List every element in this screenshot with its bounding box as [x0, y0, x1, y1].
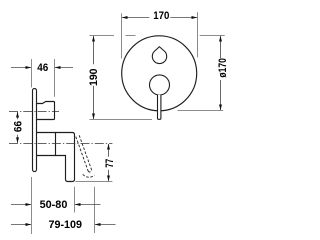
- svg-text:ø170: ø170: [217, 58, 229, 77]
- dim 46 arrows: [11, 67, 31, 69]
- dim 190 line: [93, 36, 95, 64]
- svg-text:79-109: 79-109: [49, 219, 83, 231]
- dim ø170 line: [220, 36, 222, 58]
- dim 170 line: [122, 17, 149, 19]
- centerline lever axis: [9, 143, 112, 145]
- side view: lever handle body: [37, 133, 75, 182]
- side view: handle body seam: [55, 133, 57, 155]
- centerline knob axis: [9, 111, 59, 113]
- side view: escutcheon plate (side): [33, 89, 37, 172]
- dim 79-109 arrows: [11, 224, 31, 226]
- bottom extension left (plate face): [31, 177, 33, 234]
- dim 170 extension right: [197, 12, 199, 57]
- svg-text:190: 190: [88, 68, 100, 86]
- dim 190 extension top: [90, 35, 115, 37]
- dim 190 extension bottom: [90, 119, 153, 121]
- front view: lever bar: [158, 95, 161, 120]
- side view: temperature knob: [37, 102, 55, 120]
- dim 46 extension left: [31, 59, 33, 87]
- svg-text:170: 170: [153, 10, 169, 22]
- dim 50-80 arrows: [11, 204, 31, 206]
- side view: dashed lever (alternate position): [76, 135, 92, 172]
- bottom extension right (lever dashed tip): [94, 187, 96, 233]
- bottom extension mid (lever solid tip): [74, 187, 76, 213]
- dim 77 extension bottom (handle bottom extended): [76, 181, 113, 183]
- front view: drop-shaped opening: [152, 47, 166, 64]
- svg-text:46: 46: [37, 62, 48, 74]
- dim 66 line: [17, 112, 19, 119]
- dashed lever tip sweep arc: [83, 174, 95, 177]
- svg-text:77: 77: [104, 159, 116, 168]
- dim ø170 extension bottom: [178, 110, 224, 112]
- dim 77 line: [108, 144, 110, 157]
- dim 170 extension left: [121, 13, 123, 58]
- dim 46 extension right: [54, 59, 56, 97]
- front view: trim plate circle: [122, 36, 197, 111]
- svg-text:66: 66: [12, 121, 24, 132]
- front view: lever hub circle: [150, 75, 170, 95]
- svg-text:50-80: 50-80: [40, 199, 68, 211]
- dim ø170 extension top: [200, 35, 225, 37]
